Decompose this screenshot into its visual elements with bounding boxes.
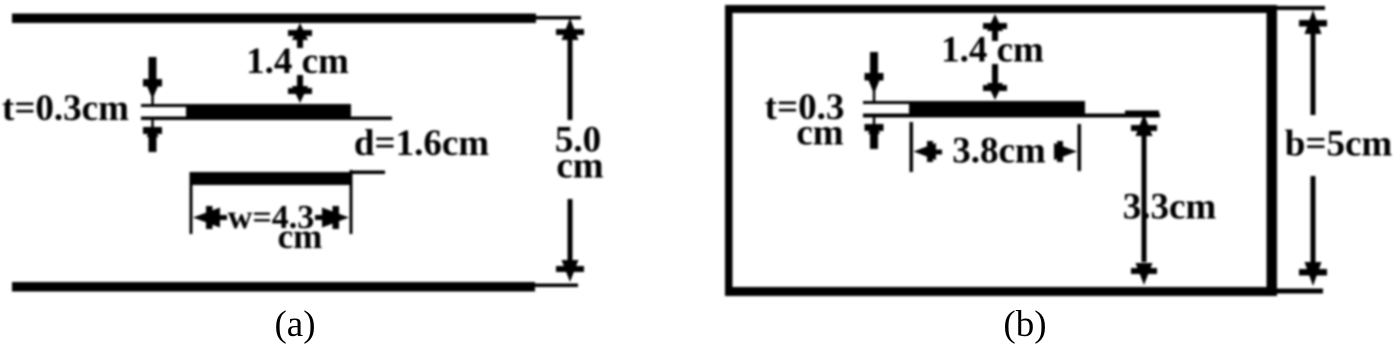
figure a middle strip bottom edge (141, 117, 392, 121)
dimension arrow b top (1299, 10, 1327, 115)
dimension arrow t lower (b) (865, 117, 884, 149)
dimension arrow b bottom (1299, 176, 1327, 286)
figure a bottom ground plate (12, 282, 535, 292)
dimension arrow 3.3 bottom (1131, 224, 1157, 285)
figure a bottom plate extension line (535, 284, 578, 288)
figure a middle strip top edge (141, 104, 187, 107)
dimension arrow 3.3 top (1131, 114, 1157, 224)
figure a lower strip solid body (190, 172, 352, 185)
svg-text:(b): (b) (1003, 304, 1046, 345)
dimension arrow 1.4cm down (b) (983, 64, 1007, 100)
dimension arrow t lower (a) (143, 120, 162, 152)
figure a lower strip top extension line (352, 171, 385, 175)
figure a top ground plate (12, 14, 536, 24)
w dimension right bracket line (350, 170, 353, 234)
dimension arrow 3.8 left (914, 141, 943, 162)
figure b top border (725, 5, 1277, 13)
svg-text:3.3cm: 3.3cm (1123, 187, 1217, 228)
figure b right border (1267, 5, 1278, 296)
3.8 dimension right bracket line (1078, 124, 1082, 171)
w dimension left bracket line (190, 172, 193, 234)
dimension arrow t upper (b) (865, 52, 884, 101)
dimension arrow 1.4cm up (a) (288, 23, 312, 48)
dimension arrow 5.0 top (556, 18, 584, 120)
figure a top plate extension line (536, 16, 581, 20)
dimension arrow 3.8 right (1054, 141, 1077, 162)
figure b bottom border (725, 287, 1277, 296)
dimension arrow t upper (a) (143, 57, 162, 104)
dimension arrow w right (315, 206, 349, 229)
dimension arrow 1.4cm up (b) (983, 14, 1007, 41)
svg-text:d=1.6cm: d=1.6cm (354, 123, 489, 164)
svg-text:(a): (a) (274, 304, 315, 345)
figure b bottom border extension line (1277, 289, 1323, 294)
figure b strip bottom edge with extension (863, 114, 1160, 118)
figure a middle strip solid body (186, 104, 351, 120)
svg-text:b=5cm: b=5cm (1285, 124, 1393, 165)
dimension arrow w left (193, 206, 227, 229)
svg-text:t=0.3cm: t=0.3cm (2, 88, 129, 129)
svg-text:cm: cm (796, 113, 843, 154)
dimension arrow 5.0 bottom (556, 199, 584, 282)
svg-text:cm: cm (278, 217, 323, 256)
dimension arrow 1.4cm down (a) (288, 75, 312, 103)
3.8 dimension left bracket line (910, 122, 914, 172)
svg-text:cm: cm (556, 146, 603, 187)
figure b strip solid body (909, 101, 1085, 117)
svg-text:3.8cm: 3.8cm (952, 131, 1046, 172)
figure b top border extension line (1277, 6, 1325, 10)
figure b strip top edge (863, 101, 909, 104)
figure b left border (725, 5, 733, 296)
